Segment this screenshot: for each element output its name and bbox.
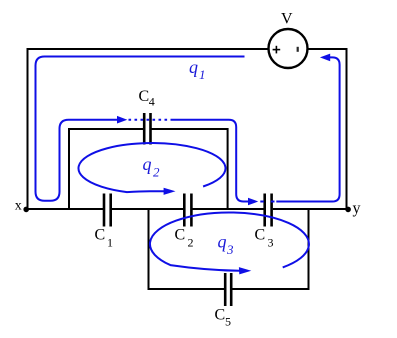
capacitor C1 plates (104, 194, 111, 227)
wire: inner C4-branch box (top-right of C4 and right side) (152, 129, 228, 209)
svg-text:V: V (281, 11, 293, 28)
wire: outer loop right side (346, 48, 348, 209)
arrowhead on q1 path before C3 (248, 198, 258, 206)
svg-text:5: 5 (225, 315, 231, 329)
svg-text:4: 4 (149, 95, 155, 109)
wire: lower C5-branch box (left side and bottom-left of C5) (149, 209, 225, 289)
svg-text:C: C (215, 307, 226, 324)
capacitor C2 plates (184, 194, 191, 227)
wire: inner C4-branch box (left side and top-left of C4) (69, 129, 143, 209)
wire: blue path C4 to C3 (down between boxes) (171, 120, 250, 202)
svg-text:1: 1 (199, 67, 206, 82)
voltage source U1 (circle) (269, 29, 308, 68)
voltage source plus terminal (273, 46, 281, 54)
svg-text:y: y (353, 200, 361, 217)
svg-text:q: q (218, 232, 227, 252)
svg-text:x: x (15, 199, 22, 214)
svg-text:C: C (175, 227, 186, 244)
node x (dot) (23, 207, 29, 213)
svg-text:q: q (143, 154, 152, 174)
voltage source minus terminal tick (297, 47, 299, 52)
wire: blue path C3 to source (right side up) (276, 57, 339, 201)
wire: main bottom horizontal x-to-y, segment x to C1 (25, 208, 103, 210)
wire: outer loop left side (27, 48, 29, 209)
wire: main horizontal, segment C2 to C3 (193, 208, 264, 210)
svg-text:C: C (255, 227, 266, 244)
arrowhead on loop q2 (164, 188, 176, 195)
svg-text:C: C (139, 88, 150, 105)
wire: main horizontal, segment C1 to C2 (112, 208, 183, 210)
node y (dot) (345, 207, 351, 213)
arrowhead on q1 path before C4 (117, 116, 127, 124)
svg-text:3: 3 (226, 242, 234, 257)
wire: lower C5-branch box (bottom-right of C5 and right side) (232, 209, 308, 289)
svg-text:2: 2 (153, 165, 160, 180)
capacitor C5 plates (225, 273, 231, 306)
wire: blue dashes through C3 (260, 201, 274, 203)
svg-text:2: 2 (188, 236, 194, 250)
svg-text:3: 3 (268, 236, 274, 250)
wire: outer loop top, left of source (27, 48, 269, 50)
svg-text:q: q (189, 57, 198, 77)
wire: outer loop top, right of source (308, 48, 348, 50)
loop q3 ellipse arc with straight arrow tail (150, 213, 309, 271)
arrowhead on q1 path returning to source (320, 54, 330, 62)
arrowhead on loop q3 (239, 267, 251, 274)
capacitor C4 plates (144, 113, 150, 145)
capacitor C3 plates (265, 194, 272, 227)
svg-text:1: 1 (107, 236, 113, 250)
loop q2 ellipse arc with straight arrow tail (78, 143, 225, 192)
svg-text:C: C (95, 227, 106, 244)
wire: blue dotted through C4 (129, 119, 171, 121)
wire: main horizontal, segment C3 to y (273, 208, 348, 210)
wire: blue charge path q1 main run (top, left U-turn, up to C4 branch) (36, 57, 245, 201)
